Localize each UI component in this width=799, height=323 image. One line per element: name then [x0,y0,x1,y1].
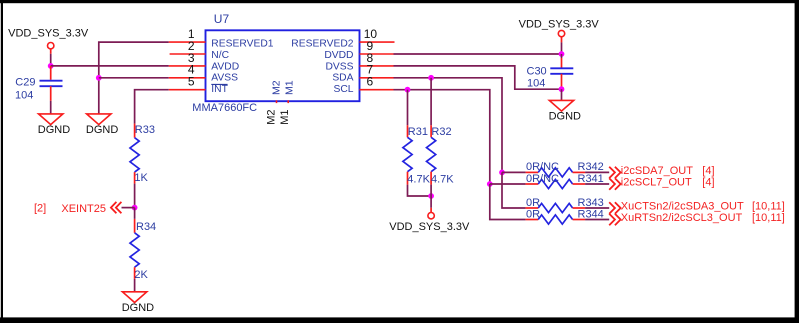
svg-text:[10,11]: [10,11] [752,201,785,213]
svg-text:DGND: DGND [38,124,70,136]
ground DGND symbol 1 [38,114,70,136]
wire SCL pin 6 net [394,90,490,184]
resistor R343 [526,203,586,212]
svg-text:6: 6 [367,75,374,89]
op IC U7 MMA7660FC body [206,30,360,101]
node junction SDA/R342 [499,170,505,176]
wire AVSS pin 4 [99,77,169,79]
svg-text:i2cSCL7_OUT: i2cSCL7_OUT [621,177,692,189]
svg-text:0R/NC: 0R/NC [526,161,559,173]
svg-text:[4]: [4] [702,165,714,177]
port chevron XuRTSn2/i2cSCL3_OUT output [609,214,620,225]
svg-text:VDD_SYS_3.3V: VDD_SYS_3.3V [519,19,600,31]
svg-text:VDD_SYS_3.3V: VDD_SYS_3.3V [8,28,89,40]
border frame right [795,0,799,323]
border frame left [1,0,3,323]
port chevron i2cSDA7_OUT output [609,167,620,178]
wire R343 to port [585,207,609,209]
svg-text:104: 104 [15,90,33,102]
port chevron XEINT25 input [111,202,122,213]
wire junction to DGND [561,89,563,100]
pin stub 3 [169,65,206,67]
svg-text:i2cSDA7_OUT: i2cSDA7_OUT [621,165,693,177]
svg-text:XEINT25: XEINT25 [61,203,106,215]
wire junction to R34 [134,208,136,219]
wire R31 bottom to R32 [408,185,432,196]
wire XEINT25 port to junction [122,207,135,209]
svg-text:M2: M2 [270,80,282,95]
svg-text:0R/NC: 0R/NC [526,173,559,185]
svg-text:M1: M1 [284,80,296,95]
wire C29 to DGND [50,101,52,114]
svg-text:R31: R31 [408,126,428,138]
node junction AVSS [96,75,102,81]
svg-text:R341: R341 [578,173,604,185]
svg-text:R342: R342 [578,161,604,173]
svg-text:4.7K: 4.7K [431,174,454,186]
wire DVSS pin 8 to C30/DGND [394,66,562,89]
pin stub 1 [169,41,206,43]
node junction AVDD/C29 [48,63,54,69]
ground DGND symbol 2 [86,114,118,136]
pin stub 6 [360,89,394,91]
svg-text:R32: R32 [431,126,451,138]
node junction SCL/R341 [487,181,493,187]
power symbol VDD_SYS_3.3V bottom [389,208,470,233]
resistor R34 [130,219,139,279]
wire DVDD pin 9 to VDD [394,53,562,55]
svg-text:R33: R33 [135,124,155,136]
svg-text:INT: INT [211,84,228,95]
resistor R342 [526,168,586,177]
svg-text:XuRTSn2/i2cSCL3_OUT: XuRTSn2/i2cSCL3_OUT [621,212,743,224]
svg-text:R343: R343 [578,197,604,209]
svg-text:C29: C29 [15,77,35,89]
svg-text:[2]: [2] [34,203,46,215]
pin stub 5 [169,89,206,91]
svg-text:MMA7660FC: MMA7660FC [192,102,257,114]
pin stub 10 [360,41,395,43]
node junction SDA/R32 [428,75,434,81]
wire R34 to DGND [134,279,136,292]
svg-text:VDD_SYS_3.3V: VDD_SYS_3.3V [389,221,470,233]
svg-text:[10,11]: [10,11] [752,212,785,224]
resistor R31 [403,125,412,184]
wire SCL to R31 [407,90,409,126]
wire R341 to port [585,183,609,185]
svg-text:0R: 0R [526,208,540,220]
ground DGND symbol 3 [122,292,154,314]
pin stub 2 N/C [170,53,206,55]
resistor R32 [427,125,436,184]
power symbol VDD_SYS_3.3V top-left [8,28,89,54]
svg-text:1K: 1K [134,172,148,184]
svg-text:4.7K: 4.7K [407,174,430,186]
svg-text:DGND: DGND [86,124,118,136]
svg-text:AVSS: AVSS [211,73,238,84]
capacitor C29 [40,66,63,101]
wire SCL junction to R341 [490,183,526,185]
pin stub 7 [360,77,394,79]
svg-text:M1: M1 [279,110,291,125]
wire AVDD net to pin 3 [51,65,169,67]
wire INT pin 5 to R33 [135,90,169,124]
svg-text:0R: 0R [526,197,540,209]
power symbol VDD_SYS_3.3V top-right [519,19,600,43]
wire SCL vertical to row4 [490,184,526,220]
svg-text:DGND: DGND [549,111,581,123]
capacitor C30 [550,54,573,87]
wire VDD to AVDD junction [50,54,52,66]
wire VDD to DVDD junction [561,42,563,54]
wire SDA to R32 [430,78,432,126]
wire SDA vertical to row3 [502,172,526,208]
node junction DVDD/C30 [559,51,565,57]
pin stub M2 [276,100,278,103]
wire pin1 RESERVED1 to DGND vertical [99,42,169,113]
svg-text:R344: R344 [578,208,604,220]
resistor R341 [526,179,586,188]
node junction C30/DVSS [559,86,565,92]
svg-text:C30: C30 [527,66,547,78]
resistor R344 [526,215,586,224]
svg-text:R34: R34 [136,221,156,233]
wire R32 bottom to VDD [430,185,432,208]
resistor R33 [130,124,139,184]
svg-text:104: 104 [527,77,545,89]
wire SDA pin 7 net [394,78,503,173]
pin stub 9 [360,53,394,55]
svg-text:2K: 2K [134,269,148,281]
wire R33 to XEINT25 node [134,184,136,208]
node junction R31/R32 [428,193,434,199]
pin name INT with overbar [211,84,228,95]
svg-text:RESERVED2: RESERVED2 [291,39,353,50]
svg-text:SCL: SCL [333,84,353,95]
pin stub 8 [360,65,394,67]
svg-text:M2: M2 [265,110,277,125]
border frame bottom [0,317,799,323]
svg-text:N/C: N/C [211,50,229,61]
node junction SCL/R31 [405,87,411,93]
svg-text:DGND: DGND [122,302,154,314]
svg-text:RESERVED1: RESERVED1 [211,39,273,50]
ground DGND symbol 4 [549,100,581,122]
wire SDA junction to R342 [502,171,526,173]
svg-text:DVDD: DVDD [324,50,353,61]
svg-text:5: 5 [188,75,195,89]
node junction XEINT25 [132,205,138,211]
pin stub M1 [287,100,289,103]
svg-text:[4]: [4] [702,177,714,189]
svg-text:U7: U7 [214,12,230,26]
port chevron i2cSCL7_OUT output [609,178,620,189]
svg-text:SDA: SDA [332,73,353,84]
border frame top [0,0,799,3]
pin stub 4 [169,77,206,79]
svg-text:XuCTSn2/i2cSDA3_OUT: XuCTSn2/i2cSDA3_OUT [621,201,744,213]
wire R342 to port [585,171,609,173]
wire R344 to port [585,219,609,221]
svg-text:AVDD: AVDD [211,61,239,72]
svg-text:DVSS: DVSS [325,61,353,72]
port chevron XuCTSn2/i2cSDA3_OUT output [609,202,620,213]
